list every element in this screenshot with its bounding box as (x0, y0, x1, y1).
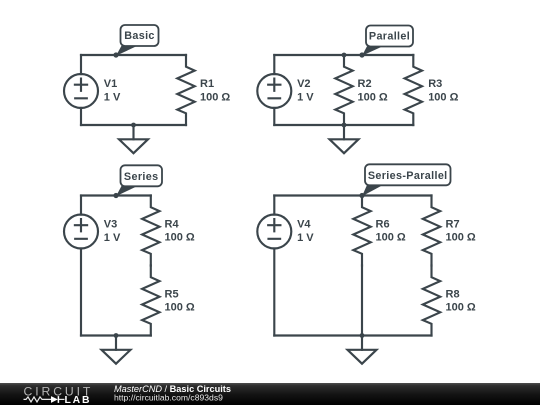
callout Basic (116, 25, 159, 56)
svg-text:100 Ω: 100 Ω (376, 232, 406, 244)
node circuit1 ground junction (131, 123, 136, 128)
resistor R4 (142, 196, 159, 266)
svg-text:Basic: Basic (124, 30, 155, 42)
svg-text:1 V: 1 V (297, 232, 314, 244)
svg-text:LAB: LAB (65, 395, 92, 405)
label R6 value (376, 218, 406, 243)
wire V1 bottom lead (80, 108, 82, 125)
resistor R5 (142, 266, 159, 336)
svg-text:1 V: 1 V (104, 91, 121, 103)
wire circuit1 left (V1 top lead) (80, 55, 82, 74)
node circuit3 ground junction (114, 333, 119, 338)
label V2 value (297, 78, 314, 103)
footer bar (0, 383, 540, 405)
callout Parallel (362, 26, 413, 56)
voltage source V1 (64, 74, 98, 108)
label V3 value (104, 219, 121, 244)
wire circuit2 V2 top lead (273, 55, 275, 74)
label R4 value (165, 218, 195, 243)
svg-text:R6: R6 (376, 218, 390, 230)
svg-text:R3: R3 (428, 78, 442, 90)
svg-text:Series: Series (124, 171, 159, 183)
svg-text:100 Ω: 100 Ω (446, 302, 476, 314)
label R5 value (165, 288, 195, 313)
wire circuit2 top (274, 54, 413, 56)
wire circuit1 bottom (81, 124, 186, 126)
svg-text:1 V: 1 V (297, 91, 314, 103)
resistor R2 (335, 55, 352, 125)
wire circuit3 V3 top lead (80, 196, 82, 215)
resistor R8 (423, 266, 440, 336)
svg-text:100 Ω: 100 Ω (165, 232, 195, 244)
ground circuit3 (102, 336, 131, 364)
node callout Parallel anchor (359, 52, 364, 57)
label R7 value (446, 218, 476, 243)
voltage source V3 (64, 215, 98, 249)
wire circuit3 top (81, 194, 151, 196)
svg-text:R8: R8 (446, 288, 460, 300)
label R1 value (200, 78, 230, 103)
wire circuit4 bottom (274, 334, 431, 336)
wire V4 bottom lead (273, 248, 275, 335)
svg-text:R1: R1 (200, 78, 214, 90)
svg-text:Parallel: Parallel (369, 31, 410, 43)
svg-text:V2: V2 (297, 78, 310, 90)
svg-text:R5: R5 (165, 288, 179, 300)
resistor R7 (423, 196, 440, 266)
node callout Basic anchor (113, 52, 118, 57)
label V1 value (104, 78, 121, 103)
label R2 value (358, 78, 388, 103)
node R2 top junction (342, 53, 347, 58)
svg-text:V1: V1 (104, 78, 117, 90)
label V4 value (297, 219, 314, 244)
svg-text:1 V: 1 V (104, 232, 121, 244)
ground circuit4 (348, 336, 377, 364)
voltage source V2 (257, 74, 291, 108)
resistor R3 (405, 55, 422, 125)
ground circuit2 (330, 125, 359, 153)
svg-text:V4: V4 (297, 219, 311, 231)
label R3 value (428, 78, 458, 103)
label R8 value (446, 288, 476, 313)
callout Series-Parallel (362, 164, 451, 196)
svg-text:100 Ω: 100 Ω (165, 302, 195, 314)
svg-text:Series-Parallel: Series-Parallel (368, 170, 448, 182)
wire circuit2 bottom (274, 124, 413, 126)
svg-text:R2: R2 (358, 78, 372, 90)
svg-text:R4: R4 (165, 218, 180, 230)
voltage source V4 (257, 215, 291, 249)
wire circuit4 V4 top lead (273, 196, 275, 215)
resistor R1 (177, 55, 194, 125)
wire circuit4 top (274, 194, 431, 196)
svg-text:100 Ω: 100 Ω (446, 232, 476, 244)
svg-text:R7: R7 (446, 218, 460, 230)
CircuitLab logo diode (51, 396, 65, 403)
node circuit4 ground junction (360, 333, 365, 338)
node callout Series anchor (113, 193, 118, 198)
node callout Series-Parallel anchor (359, 193, 364, 198)
svg-text:V3: V3 (104, 219, 117, 231)
svg-text:http://circuitlab.com/c893ds9: http://circuitlab.com/c893ds9 (114, 393, 223, 403)
wire V2 bottom lead (273, 108, 275, 125)
CircuitLab logo resistor squiggle (24, 397, 52, 402)
svg-text:100 Ω: 100 Ω (428, 91, 458, 103)
wire V3 bottom lead (80, 248, 82, 335)
ground circuit1 (119, 125, 148, 153)
wire circuit1 top (81, 54, 186, 56)
wire circuit3 bottom (81, 334, 151, 336)
resistor R6 (353, 196, 370, 266)
svg-text:100 Ω: 100 Ω (358, 91, 388, 103)
svg-text:100 Ω: 100 Ω (200, 91, 230, 103)
callout Series (116, 165, 162, 196)
wire R6 bottom lead (361, 266, 363, 336)
node circuit2 ground junction (342, 123, 347, 128)
